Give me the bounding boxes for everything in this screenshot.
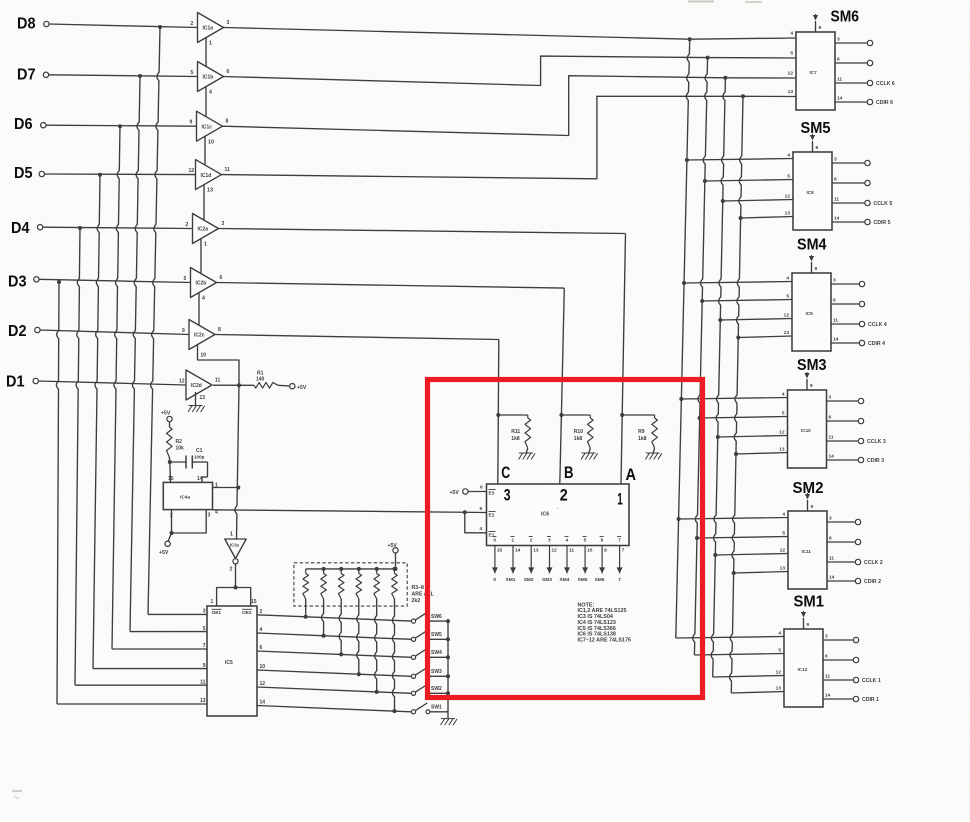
svg-text:6: 6 xyxy=(829,536,832,542)
wire bus to IC8 pin 4 xyxy=(687,159,793,161)
wire bus to IC12 pin 5 xyxy=(694,654,784,656)
svg-text:+5V: +5V xyxy=(450,490,460,496)
junction bus IC10 xyxy=(734,452,738,456)
wire IC5 to SW5 xyxy=(257,633,411,639)
monostable IC4a 74LS123 xyxy=(163,482,212,509)
wire bus to IC8 pin 13 xyxy=(741,217,793,219)
node output terminal xyxy=(865,180,870,185)
wire bus to IC10 pin 5 xyxy=(700,417,788,419)
svg-text:14: 14 xyxy=(829,575,835,581)
svg-text:12: 12 xyxy=(784,313,790,319)
svg-text:+5V: +5V xyxy=(159,550,169,556)
svg-text:9: 9 xyxy=(182,328,185,334)
wire R5 foot xyxy=(339,599,341,654)
svg-text:14: 14 xyxy=(825,693,831,699)
wire IC10 output 3 xyxy=(827,400,859,402)
wire D6 input xyxy=(46,125,197,126)
svg-text:R3–8: R3–8 xyxy=(412,585,425,591)
wire D3 to IC5 pin 13 xyxy=(56,282,59,704)
junction bus IC11 xyxy=(713,553,717,557)
svg-text:SM5: SM5 xyxy=(801,120,831,137)
buffer IC1b xyxy=(198,62,224,92)
svg-text:4: 4 xyxy=(786,276,789,282)
svg-text:11: 11 xyxy=(825,674,830,680)
svg-text:E3: E3 xyxy=(489,491,495,497)
wire SM5 to IC8 pin9 xyxy=(812,141,814,152)
svg-text:12: 12 xyxy=(552,548,558,554)
junction E1/E2 tie xyxy=(463,510,467,514)
resistor R11 1k8 xyxy=(498,414,528,416)
svg-text:SW1: SW1 xyxy=(431,705,442,711)
wire IC7 output 14 xyxy=(835,101,868,103)
svg-text:R11: R11 xyxy=(511,429,520,435)
svg-text:CDIR 6: CDIR 6 xyxy=(876,100,893,106)
svg-text:9: 9 xyxy=(807,622,810,628)
svg-text:13: 13 xyxy=(780,566,786,572)
wire data bus 2 xyxy=(693,58,708,655)
wire SM4 to IC9 pin9 xyxy=(811,262,813,273)
wire A select xyxy=(219,229,626,234)
wire IC6 output SM1 xyxy=(512,546,514,574)
svg-text:SM4: SM4 xyxy=(797,237,827,254)
wire IC6 output 0 xyxy=(494,546,496,574)
svg-text:3: 3 xyxy=(833,278,836,284)
wire IC6 output SM3 xyxy=(549,546,551,574)
junction IC4a pin2 xyxy=(170,531,174,535)
svg-text:12: 12 xyxy=(785,194,791,200)
wire IC12 output 6 xyxy=(823,659,854,661)
buffer IC1c xyxy=(197,111,223,141)
svg-text:11: 11 xyxy=(569,548,574,554)
wire R8 foot xyxy=(392,599,394,711)
wire IC8 output 3 xyxy=(832,162,865,164)
svg-text:6: 6 xyxy=(825,654,828,660)
wire D8 to IC5 pin 3 xyxy=(148,27,160,614)
wire IC12 output 3 xyxy=(823,639,854,641)
wire bus to IC11 pin 4 xyxy=(679,518,788,520)
wire IC11 output 3 xyxy=(827,521,856,523)
junction D3 xyxy=(57,280,61,284)
junction D7 xyxy=(138,74,142,78)
svg-text:6: 6 xyxy=(480,485,483,491)
svg-text:10: 10 xyxy=(208,139,214,145)
junction rail xyxy=(446,655,450,659)
wire bus to IC9 pin 13 xyxy=(738,336,792,338)
svg-text:D2: D2 xyxy=(8,323,27,340)
svg-text:13: 13 xyxy=(779,447,785,453)
junction bus IC8 xyxy=(721,199,725,203)
svg-text:0: 0 xyxy=(493,577,496,583)
buffer IC1a xyxy=(198,13,224,43)
wire D2 input xyxy=(40,330,189,335)
node R3-R8 dashed box xyxy=(294,563,407,606)
wire R4 foot xyxy=(322,599,324,636)
wire OE loop xyxy=(217,588,251,607)
node output terminal xyxy=(859,321,864,326)
junction rail xyxy=(446,691,450,695)
ground switch rail xyxy=(447,713,449,719)
wire bus to IC11 pin 5 xyxy=(697,537,788,539)
svg-text:1: 1 xyxy=(211,599,214,605)
svg-text:IC1d: IC1d xyxy=(201,173,212,179)
wire C select xyxy=(215,335,499,340)
svg-text:13: 13 xyxy=(784,330,790,336)
resistor R1 140 xyxy=(254,383,278,389)
svg-text:4: 4 xyxy=(782,512,785,518)
svg-text:C1: C1 xyxy=(196,448,203,454)
wire IC8 output 11 xyxy=(832,202,865,204)
junction R2/C1 xyxy=(168,460,172,464)
wire IC7 output 11 xyxy=(835,82,868,84)
junction bus IC9 xyxy=(736,336,740,340)
inverter IC3a xyxy=(225,539,246,559)
svg-text:12: 12 xyxy=(260,681,266,687)
svg-text:CCLK 1: CCLK 1 xyxy=(862,678,881,684)
svg-text:14: 14 xyxy=(197,476,203,482)
node output terminal xyxy=(855,578,860,583)
wire enable chain IC1c-IC1d xyxy=(204,136,206,165)
svg-text:B: B xyxy=(564,464,574,482)
svg-text:9: 9 xyxy=(816,145,819,151)
svg-text:3: 3 xyxy=(203,609,206,615)
wire IC7 output 6 xyxy=(835,62,868,64)
junction network rail xyxy=(393,567,397,571)
ground R9 xyxy=(646,452,660,454)
node output terminal xyxy=(867,99,872,104)
wire R2 to IC4a pin15 xyxy=(168,457,171,462)
svg-text:IC10: IC10 xyxy=(801,428,811,433)
flipflop IC9 74LS175 xyxy=(792,273,831,351)
svg-text:10: 10 xyxy=(587,548,593,554)
buffer IC2d xyxy=(186,370,212,400)
svg-text:IC1b: IC1b xyxy=(203,75,214,81)
svg-text:OE2: OE2 xyxy=(242,610,252,616)
svg-text:11: 11 xyxy=(200,679,206,685)
svg-text:IC2d: IC2d xyxy=(191,383,202,389)
wire data bus 1 xyxy=(676,39,690,638)
junction bus IC8 xyxy=(703,179,707,183)
svg-text:15: 15 xyxy=(251,599,257,605)
wire D7 input xyxy=(48,75,197,77)
junction network rail xyxy=(375,567,379,571)
svg-text:SW4: SW4 xyxy=(431,650,442,656)
wire IC11 output 14 xyxy=(827,580,856,582)
junction C xyxy=(496,413,500,417)
flipflop IC10 74LS175 xyxy=(788,390,827,468)
svg-text:12: 12 xyxy=(780,548,786,554)
svg-text:D8: D8 xyxy=(17,16,36,33)
junction bus 1 top xyxy=(688,37,692,41)
wire D3 input xyxy=(39,279,191,282)
svg-text:IC12: IC12 xyxy=(798,667,808,672)
svg-text:13: 13 xyxy=(776,686,782,692)
svg-text:IC11: IC11 xyxy=(802,549,812,554)
svg-text:14: 14 xyxy=(829,454,835,460)
svg-text:11: 11 xyxy=(837,77,842,83)
wire IC7 output 3 xyxy=(835,42,868,44)
wire bus to IC9 pin 12 xyxy=(720,319,792,321)
svg-text:SW3: SW3 xyxy=(431,669,442,675)
wire D8 input xyxy=(49,24,198,28)
ground R10 xyxy=(582,452,596,454)
wire SM1 to IC12 pin9 xyxy=(803,618,805,629)
junction bus IC10 xyxy=(698,416,702,420)
resistor R2 10k xyxy=(169,421,171,427)
wire switch common rail xyxy=(447,621,449,713)
junction D6 xyxy=(118,124,122,128)
wire data bus 4 xyxy=(729,96,743,693)
svg-text:13: 13 xyxy=(200,395,206,401)
svg-text:3: 3 xyxy=(829,395,832,401)
resistor R10 1k8 xyxy=(561,414,590,416)
node output terminal xyxy=(858,438,863,443)
svg-text:6: 6 xyxy=(833,298,836,304)
wire IC8 output 14 xyxy=(832,221,865,223)
svg-text:13: 13 xyxy=(533,548,539,554)
svg-text:IC3a: IC3a xyxy=(230,543,240,548)
wire bus to IC12 pin 4 xyxy=(676,637,784,639)
svg-text:4: 4 xyxy=(202,296,205,302)
resistor R5 2k2 xyxy=(340,569,342,574)
junction rail xyxy=(446,637,450,641)
decoder IC6 74LS138 xyxy=(487,484,630,546)
buffer IC2c xyxy=(189,320,215,350)
svg-text:12: 12 xyxy=(776,670,782,676)
svg-text:5: 5 xyxy=(778,648,781,654)
resistor R7 2k2 xyxy=(376,569,378,574)
wire IC2d output to R1 xyxy=(213,384,254,386)
power +5V R1 xyxy=(290,384,295,389)
resistor R9 1k8 xyxy=(622,414,654,416)
svg-text:C: C xyxy=(501,464,510,482)
node output terminal xyxy=(855,519,860,524)
junction strobe at IC4a pin1 xyxy=(236,486,240,490)
svg-text:5: 5 xyxy=(787,174,790,180)
node output terminal xyxy=(853,677,858,682)
svg-text:CCLK 6: CCLK 6 xyxy=(876,81,895,87)
svg-text:CDIR 2: CDIR 2 xyxy=(864,579,881,585)
svg-text:SM3: SM3 xyxy=(542,577,552,583)
svg-text:+5V: +5V xyxy=(388,543,398,549)
svg-text:12: 12 xyxy=(189,168,195,174)
svg-text:A: A xyxy=(626,466,637,484)
svg-text:11: 11 xyxy=(829,556,834,562)
wire IC9 output 11 xyxy=(831,323,860,325)
junction D5 xyxy=(98,173,102,177)
svg-text:4: 4 xyxy=(790,31,793,37)
svg-text:1: 1 xyxy=(209,41,212,47)
junction R8 xyxy=(393,709,397,713)
svg-text:14: 14 xyxy=(515,548,521,554)
svg-text:R2: R2 xyxy=(176,439,183,445)
svg-text:IC4a: IC4a xyxy=(180,495,190,501)
wire IC10 output 11 xyxy=(827,440,859,442)
svg-text:CCLK 2: CCLK 2 xyxy=(864,560,883,566)
svg-text:SW5: SW5 xyxy=(431,632,442,638)
wire IC6 output SM2 xyxy=(530,546,532,574)
svg-text:D4: D4 xyxy=(11,220,30,237)
node output terminal xyxy=(865,200,870,205)
svg-text:+5V: +5V xyxy=(161,411,171,417)
svg-text:1: 1 xyxy=(617,491,623,509)
wire xyxy=(12,790,22,792)
svg-text:7: 7 xyxy=(622,548,625,554)
svg-text:7: 7 xyxy=(618,538,621,544)
svg-text:12: 12 xyxy=(788,71,794,77)
svg-text:3: 3 xyxy=(825,634,828,640)
svg-text:D7: D7 xyxy=(17,67,36,84)
switch SW3 xyxy=(411,674,415,678)
resistor R3 2k2 xyxy=(305,569,307,574)
wire bus to IC12 pin 13 xyxy=(731,692,784,694)
node output terminal xyxy=(867,60,872,65)
svg-text:1: 1 xyxy=(512,538,515,544)
svg-text:6: 6 xyxy=(834,177,837,183)
resistor R8 2k2 xyxy=(394,569,396,574)
wire IC6 output SM6 xyxy=(601,546,603,574)
junction D8 xyxy=(158,25,162,29)
svg-text:OE1: OE1 xyxy=(212,610,222,616)
switch SW5 xyxy=(411,637,415,641)
wire strobe IC4a pin4 to IC6 E2 xyxy=(213,510,487,513)
svg-text:CCLK 3: CCLK 3 xyxy=(867,439,886,445)
wire data bus 3 xyxy=(711,78,725,677)
svg-text:IC2a: IC2a xyxy=(198,227,209,233)
svg-text:9: 9 xyxy=(203,663,206,669)
svg-text:CCLK 5: CCLK 5 xyxy=(874,201,893,207)
svg-text:4: 4 xyxy=(260,627,263,633)
svg-text:13: 13 xyxy=(200,698,206,704)
wire IC8 output 6 xyxy=(832,182,865,184)
wire IC5 to SW6 xyxy=(257,615,411,621)
switch SW6 xyxy=(411,619,415,623)
node output terminal xyxy=(867,80,872,85)
svg-text:1: 1 xyxy=(230,532,233,538)
svg-text:SM1: SM1 xyxy=(794,594,825,611)
node output terminal xyxy=(867,40,872,45)
svg-text:14: 14 xyxy=(834,216,840,222)
svg-text:D5: D5 xyxy=(14,165,33,182)
junction bus IC11 xyxy=(732,571,736,575)
node red annotation box xyxy=(428,380,703,698)
svg-text:6: 6 xyxy=(601,538,604,544)
wire R3 foot xyxy=(305,599,307,617)
svg-text:R10: R10 xyxy=(574,429,583,435)
junction R6 xyxy=(357,672,361,676)
wire D5 to IC5 pin 9 xyxy=(93,175,100,669)
svg-text:12: 12 xyxy=(779,430,785,436)
wire E3 xyxy=(468,491,487,493)
wire bus to IC9 pin 4 xyxy=(684,282,792,284)
svg-text:10: 10 xyxy=(201,353,207,359)
node output terminal xyxy=(853,637,858,642)
wire IC2d enable xyxy=(195,392,197,406)
switch SW2 xyxy=(411,691,415,695)
svg-text:11: 11 xyxy=(829,435,834,441)
svg-text:14: 14 xyxy=(833,337,839,343)
junction bus IC10 xyxy=(679,397,683,401)
wire D1 input xyxy=(38,381,186,385)
svg-text:IC5: IC5 xyxy=(225,660,233,666)
wire IC6 output SM5 xyxy=(584,546,586,574)
wire E1 tie xyxy=(465,512,487,533)
svg-text:6: 6 xyxy=(829,415,832,421)
wire bus to IC9 pin 5 xyxy=(702,300,792,302)
svg-text:ARE ALL: ARE ALL xyxy=(412,592,435,598)
svg-text:SM6: SM6 xyxy=(595,577,605,583)
wire IC12 output 11 xyxy=(823,679,854,681)
svg-text:1k8: 1k8 xyxy=(511,436,520,442)
wire enable chain IC1d-IC2a xyxy=(203,185,205,220)
svg-text:4: 4 xyxy=(566,538,569,544)
junction rail xyxy=(446,619,450,623)
svg-text:11: 11 xyxy=(225,167,231,173)
wire bus to IC8 pin 12 xyxy=(723,200,793,202)
svg-text:3: 3 xyxy=(829,516,832,522)
junction bus 2 top xyxy=(706,56,710,60)
junction R7 xyxy=(375,690,379,694)
wire IC5 to SW2 xyxy=(257,687,411,693)
svg-text:10: 10 xyxy=(260,664,266,670)
ground R11 xyxy=(519,452,533,454)
svg-text:9: 9 xyxy=(810,383,813,389)
node output terminal xyxy=(855,559,860,564)
svg-text:IC2b: IC2b xyxy=(196,281,207,287)
svg-text:5: 5 xyxy=(790,51,793,57)
svg-text:2: 2 xyxy=(230,567,233,573)
svg-text:IC9: IC9 xyxy=(806,311,814,316)
junction network rail xyxy=(339,567,343,571)
wire bus to IC12 pin 12 xyxy=(713,676,784,678)
svg-text:3: 3 xyxy=(208,513,211,519)
junction D4 xyxy=(78,226,82,230)
wire IC10 output 14 xyxy=(827,459,859,461)
node output terminal xyxy=(859,340,864,345)
svg-text:D6: D6 xyxy=(14,116,33,133)
svg-text:9: 9 xyxy=(811,504,814,510)
node output terminal xyxy=(853,657,858,662)
svg-text:7: 7 xyxy=(203,643,206,649)
wire IC10 output 6 xyxy=(827,420,859,422)
svg-text:100p: 100p xyxy=(194,455,205,460)
svg-text:5: 5 xyxy=(786,294,789,300)
node output terminal xyxy=(859,281,864,286)
junction bus IC9 xyxy=(682,281,686,285)
svg-text:5: 5 xyxy=(184,276,187,282)
wire enable chain IC1a-IC1b xyxy=(205,38,207,67)
svg-text:D3: D3 xyxy=(8,274,27,291)
wire IC11 output 11 xyxy=(827,561,856,563)
svg-text:3: 3 xyxy=(834,157,837,163)
svg-text:CDIR 5: CDIR 5 xyxy=(874,220,891,226)
wire SM3 to IC10 pin9 xyxy=(806,379,808,390)
svg-text:140: 140 xyxy=(256,377,265,383)
junction A xyxy=(620,413,624,417)
svg-text:3: 3 xyxy=(504,487,511,505)
wire strobe node vertical xyxy=(235,385,239,539)
svg-text:6: 6 xyxy=(220,275,223,281)
wire bus to IC8 pin 5 xyxy=(705,180,793,182)
node output terminal xyxy=(858,398,863,403)
switch SW4 xyxy=(411,655,415,659)
svg-text:3: 3 xyxy=(222,221,225,227)
wire bus to IC10 pin 12 xyxy=(718,436,788,438)
power +5V R2 xyxy=(167,416,172,421)
wire SM2 to IC11 pin9 xyxy=(807,500,809,511)
svg-text:14: 14 xyxy=(260,700,266,706)
svg-text:3: 3 xyxy=(227,20,230,26)
svg-text:13: 13 xyxy=(788,89,794,95)
